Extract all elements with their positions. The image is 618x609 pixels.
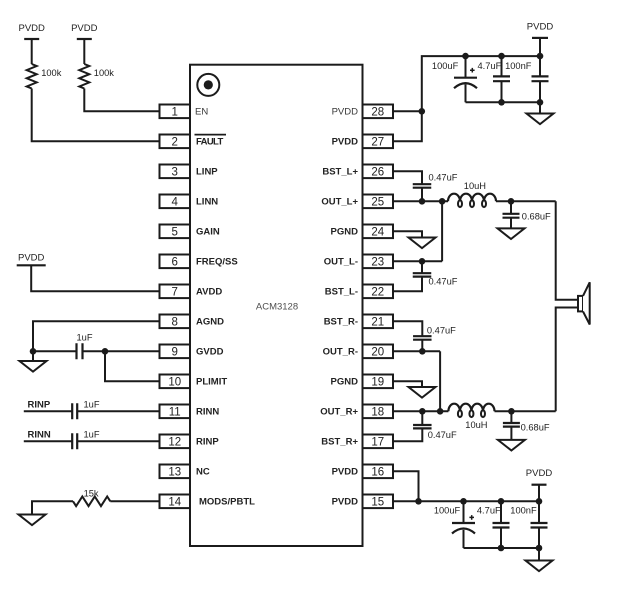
svg-text:17: 17 — [371, 437, 384, 449]
svg-text:100uF: 100uF — [432, 61, 459, 71]
pin 18 box and number — [363, 405, 394, 419]
wire C15 top lead — [538, 501, 540, 523]
wire bottom group rail — [464, 547, 540, 549]
junction bottom rail / ground — [537, 99, 544, 106]
svg-text:1uF: 1uF — [84, 430, 100, 440]
svg-text:6: 6 — [172, 257, 178, 269]
svg-text:ACM3128: ACM3128 — [256, 302, 298, 313]
wire C13 bottom lead — [463, 530, 465, 548]
svg-text:9: 9 — [172, 347, 178, 359]
svg-text:BST_L-: BST_L- — [325, 287, 358, 298]
ground (MODS/PBTL) — [19, 515, 46, 526]
wire pin 28 PVDD to node C — [393, 110, 422, 112]
wire C14 top lead — [500, 501, 502, 523]
junction node A (AGND/C1) — [30, 348, 37, 355]
IC U1 ACM3128 body — [190, 65, 363, 546]
svg-text:OUT_R+: OUT_R+ — [320, 407, 358, 418]
capacitor C13 100uF (bulk, bottom) — [452, 522, 475, 524]
wire L1 to speaker node — [496, 200, 556, 202]
wire C9 top lead — [510, 201, 512, 214]
resistor R2 100k — [79, 64, 89, 89]
pin 19 box and number — [363, 375, 394, 389]
junction L1 out / C9 — [508, 198, 515, 205]
pin 24 box and number — [363, 225, 394, 239]
pin 13 box and number — [160, 465, 191, 479]
svg-text:1: 1 — [172, 107, 178, 119]
wire node C riser and top rail — [422, 56, 540, 111]
svg-text:NC: NC — [196, 467, 210, 478]
inductor L2 10uH — [448, 404, 494, 412]
svg-text:10uH: 10uH — [465, 420, 487, 430]
junction OUT_R+ / C11 — [419, 408, 426, 415]
svg-text:RINP: RINP — [196, 437, 219, 448]
ground (C9) — [498, 228, 525, 239]
pin 25 box and number — [363, 195, 394, 209]
capacitor C14 4.7uF (bottom) — [493, 523, 510, 528]
pin 22 box and number — [363, 285, 394, 299]
pin 21 box and number — [363, 315, 394, 329]
capacitor C3 1uF (RINN) — [72, 433, 77, 449]
wire pin 8 AGND to node A — [33, 321, 160, 351]
svg-text:2: 2 — [172, 137, 178, 149]
wire C9 to ground — [510, 218, 512, 229]
svg-text:3: 3 — [172, 167, 178, 179]
junction bottom rail / C5 — [498, 99, 505, 106]
IC pin-1 indicator circle — [197, 74, 219, 96]
svg-text:21: 21 — [371, 317, 384, 329]
svg-text:LINP: LINP — [196, 167, 218, 178]
svg-text:FAULT: FAULT — [196, 137, 223, 148]
svg-text:PVDD: PVDD — [18, 23, 45, 34]
wire PVDD bar to R1 — [31, 39, 33, 64]
wire C3 to pin 12 RINP — [77, 440, 159, 442]
pin 17 box and number — [363, 435, 394, 449]
svg-text:PVDD: PVDD — [18, 253, 45, 264]
pin 23 box and number — [363, 255, 394, 269]
pin 5 box and number — [160, 225, 191, 239]
wire pin 20 OUT_R- to tie — [393, 350, 440, 352]
resistor R1 100k — [27, 64, 37, 89]
svg-text:FREQ/SS: FREQ/SS — [196, 257, 238, 268]
svg-text:1uF: 1uF — [84, 400, 100, 410]
PVDD supply bar (AVDD) — [17, 264, 46, 266]
wire C11 to pin 17 BST_R+ — [393, 428, 422, 441]
wire C13 top lead — [463, 501, 465, 523]
svg-text:BST_R+: BST_R+ — [321, 437, 358, 448]
svg-text:4.7uF: 4.7uF — [478, 61, 502, 71]
junction rail / PVDD — [536, 498, 543, 505]
capacitor C2 1uF (RINP) — [72, 403, 77, 419]
svg-text:RINN: RINN — [196, 407, 219, 418]
svg-text:15: 15 — [371, 497, 384, 509]
svg-text:MODS/PBTL: MODS/PBTL — [199, 497, 255, 508]
svg-text:100nF: 100nF — [505, 61, 532, 71]
wire C2 to pin 11 RINN — [77, 410, 159, 412]
svg-text:LINN: LINN — [196, 197, 218, 208]
svg-text:0.68uF: 0.68uF — [521, 423, 550, 433]
svg-text:0.68uF: 0.68uF — [522, 211, 551, 221]
junction bottom rail / C14 — [498, 545, 505, 552]
svg-text:4.7uF: 4.7uF — [477, 505, 501, 515]
wire pin 16 PVDD riser — [393, 471, 419, 501]
wire to speaker plus — [556, 201, 578, 299]
junction OUT_L+ / OUT_L- tie — [439, 198, 446, 205]
wire C12 top lead — [510, 411, 512, 423]
wire C12 to ground — [510, 427, 512, 440]
svg-text:PVDD: PVDD — [332, 467, 359, 478]
wire L2 to speaker node — [495, 410, 556, 412]
svg-text:28: 28 — [371, 107, 384, 119]
svg-text:19: 19 — [371, 377, 384, 389]
svg-text:18: 18 — [371, 407, 384, 419]
FAULT active-low overline — [195, 134, 227, 136]
svg-text:10: 10 — [168, 377, 181, 389]
svg-text:BST_R-: BST_R- — [324, 317, 358, 328]
svg-text:BST_L+: BST_L+ — [322, 167, 358, 178]
junction rail / C13 — [460, 498, 467, 505]
speaker LS1 — [578, 296, 583, 312]
junction L2 out / C12 — [508, 408, 515, 415]
svg-text:100k: 100k — [94, 68, 115, 78]
svg-text:10uH: 10uH — [464, 181, 486, 191]
capacitor C9 0.68uF (L filter) — [503, 214, 520, 218]
svg-text:PVDD: PVDD — [526, 468, 553, 479]
svg-text:27: 27 — [371, 137, 384, 149]
svg-text:1uF: 1uF — [77, 333, 93, 343]
wire R1 to pin 2 FAULT — [32, 89, 160, 142]
wire bottom rail to ground — [539, 102, 541, 113]
svg-text:26: 26 — [371, 167, 384, 179]
pin 1 box and number — [160, 105, 191, 119]
wire C4 bottom lead — [465, 85, 467, 103]
pin 8 box and number — [160, 315, 191, 329]
wire R2 to pin 1 EN — [84, 89, 159, 112]
ground (C12) — [498, 440, 525, 451]
capacitor C4 100uF (bulk, top) — [454, 77, 477, 79]
wire PVDD bar to rail — [539, 38, 541, 56]
wire C15 bottom lead — [538, 528, 540, 549]
PVDD supply bar (pull-up R2) — [77, 38, 92, 40]
capacitor C11 0.47uF (BST_R+) — [413, 425, 432, 428]
wire C5 top lead — [501, 56, 503, 76]
wire to speaker minus — [556, 308, 578, 412]
pin 14 box and number — [160, 495, 191, 509]
wire C10 to OUT_R- node — [421, 340, 423, 352]
wire node B to pin 10 PLIMIT — [105, 351, 160, 381]
svg-text:PVDD: PVDD — [527, 21, 554, 32]
wire pin 23 OUT_L- to tie — [393, 260, 442, 262]
svg-text:13: 13 — [168, 467, 181, 479]
wire PVDD bar to R2 — [83, 39, 85, 64]
svg-text:PVDD: PVDD — [332, 497, 359, 508]
svg-text:15k: 15k — [84, 489, 99, 499]
svg-text:16: 16 — [371, 467, 384, 479]
svg-text:8: 8 — [172, 317, 178, 329]
wire pin 26 BST_L+ to C7 — [393, 171, 422, 184]
svg-text:14: 14 — [168, 497, 181, 509]
wire pin 19 PGND jog — [393, 381, 422, 387]
pin 20 box and number — [363, 345, 394, 359]
junction OUT_L+ / C7 — [419, 198, 426, 205]
junction top rail / PVDD — [537, 53, 544, 60]
capacitor C8 0.47uF (BST_L-) — [413, 273, 432, 276]
capacitor C6 100nF (top) — [532, 76, 549, 81]
wire C8 top lead — [421, 261, 423, 273]
wire pin 18 OUT_R+ to L2 — [393, 410, 448, 412]
svg-text:GAIN: GAIN — [196, 227, 220, 238]
PVDD supply bar (top) — [532, 37, 548, 39]
wire top group bottom rail — [466, 101, 541, 103]
wire C11 riser — [421, 411, 423, 425]
svg-text:23: 23 — [371, 257, 384, 269]
junction OUT_L- / C8 — [419, 258, 426, 265]
junction node D (pin16/pin15) — [415, 498, 422, 505]
wire C1 to pin 9 GVDD — [83, 350, 160, 352]
svg-text:25: 25 — [371, 197, 384, 209]
capacitor C7 0.47uF (BST_L+) — [413, 184, 432, 188]
svg-text:0.47uF: 0.47uF — [428, 430, 457, 440]
junction OUT_R+ / tie — [437, 408, 444, 415]
junction bottom rail / ground — [536, 545, 543, 552]
wire C14 bottom lead — [500, 528, 502, 549]
svg-text:100k: 100k — [41, 68, 62, 78]
svg-text:0.47uF: 0.47uF — [427, 325, 456, 335]
capacitor C5 4.7uF (top) — [493, 76, 510, 81]
wire RINP input to C2 — [24, 410, 72, 412]
junction OUT_R- / C10 — [419, 348, 426, 355]
svg-text:AVDD: AVDD — [196, 287, 222, 298]
pin 9 box and number — [160, 345, 191, 359]
svg-text:22: 22 — [371, 287, 384, 299]
wire C7 to OUT_L+ node — [421, 188, 423, 202]
svg-text:OUT_R-: OUT_R- — [323, 347, 358, 358]
ground (pin 19 PGND) — [409, 387, 436, 398]
wire node A to ground — [32, 351, 34, 361]
capacitor C10 0.47uF (BST_R-) — [413, 336, 432, 340]
svg-text:AGND: AGND — [196, 317, 224, 328]
PVDD supply bar (bottom) — [532, 484, 547, 486]
wire pin 21 BST_R- to C10 — [393, 321, 422, 336]
svg-text:100uF: 100uF — [434, 505, 461, 515]
pin 28 box and number — [363, 105, 394, 119]
wire C1 left lead to node A — [33, 350, 77, 352]
capacitor C12 0.68uF (R filter) — [503, 423, 520, 427]
wire OUT_R- to OUT_R+ tie — [439, 351, 441, 411]
pin 7 box and number — [160, 285, 191, 299]
svg-text:GVDD: GVDD — [196, 347, 224, 358]
svg-text:0.47uF: 0.47uF — [429, 173, 458, 183]
pin 26 box and number — [363, 165, 394, 179]
svg-text:OUT_L-: OUT_L- — [324, 257, 358, 268]
capacitor C1 1uF (GVDD) — [77, 343, 83, 359]
svg-text:RINN: RINN — [28, 429, 51, 440]
junction top rail / C4 — [462, 53, 469, 60]
wire C4 top lead — [465, 56, 467, 78]
wire OUT_L+ to OUT_L- tie — [441, 201, 443, 261]
wire pin 25 OUT_L+ to L1 — [393, 200, 448, 202]
svg-text:4: 4 — [172, 197, 179, 209]
pin 10 box and number — [160, 375, 191, 389]
junction rail / C14 — [498, 498, 505, 505]
svg-text:12: 12 — [168, 437, 181, 449]
wire C5 bottom lead — [501, 81, 503, 102]
wire pin 15 PVDD rail — [393, 500, 539, 502]
wire C6 top lead — [539, 56, 541, 76]
svg-text:11: 11 — [169, 407, 181, 419]
pin 11 box and number — [160, 405, 191, 419]
svg-text:0.47uF: 0.47uF — [429, 277, 458, 287]
svg-text:PLIMIT: PLIMIT — [196, 377, 227, 388]
wire pin 24 PGND jog — [393, 231, 422, 237]
pin 16 box and number — [363, 465, 394, 479]
svg-text:100nF: 100nF — [510, 505, 537, 515]
wire C6 bottom lead — [539, 81, 541, 102]
svg-text:7: 7 — [172, 287, 178, 299]
PVDD supply bar (pull-up R1) — [24, 38, 39, 40]
junction node B (GVDD/PLIMIT) — [102, 348, 109, 355]
ground (AGND) — [20, 361, 47, 372]
pin 2 box and number — [160, 135, 191, 149]
svg-text:OUT_L+: OUT_L+ — [321, 197, 358, 208]
pin 4 box and number — [160, 195, 191, 209]
wire rail to ground — [538, 548, 540, 561]
pin 3 box and number — [160, 165, 191, 179]
ground (pin 24 PGND) — [409, 238, 436, 249]
wire RINN input to C3 — [24, 440, 72, 442]
svg-text:5: 5 — [172, 227, 178, 239]
junction node C (PVDD rail tap) — [419, 108, 426, 115]
ground (bottom PVDD group) — [526, 561, 553, 572]
pin 12 box and number — [160, 435, 191, 449]
ground (top PVDD group) — [527, 114, 554, 125]
svg-text:24: 24 — [371, 227, 384, 239]
pin 15 box and number — [363, 495, 394, 509]
pin 6 box and number — [160, 255, 191, 269]
wire C8 to pin 22 BST_L- — [393, 277, 422, 292]
svg-text:20: 20 — [371, 347, 384, 359]
pin 27 box and number — [363, 135, 394, 149]
wire PVDD to pin 7 AVDD — [31, 265, 159, 291]
resistor R3 15k — [73, 497, 110, 507]
svg-text:PVDD: PVDD — [71, 23, 98, 34]
svg-text:PVDD: PVDD — [332, 137, 359, 148]
svg-text:RINP: RINP — [28, 399, 51, 410]
svg-text:EN: EN — [195, 107, 208, 118]
svg-text:PGND: PGND — [331, 227, 359, 238]
junction top rail / C5 — [498, 53, 505, 60]
wire pin 27 PVDD riser — [393, 111, 422, 141]
wire pin 14 to R3 — [110, 500, 159, 502]
capacitor C15 100nF (bottom) — [531, 523, 548, 528]
wire PVDD bar to rail — [538, 485, 540, 502]
svg-text:PVDD: PVDD — [332, 107, 359, 118]
wire R3 to ground — [32, 501, 73, 514]
svg-text:PGND: PGND — [331, 377, 359, 388]
inductor L1 10uH — [448, 194, 496, 202]
